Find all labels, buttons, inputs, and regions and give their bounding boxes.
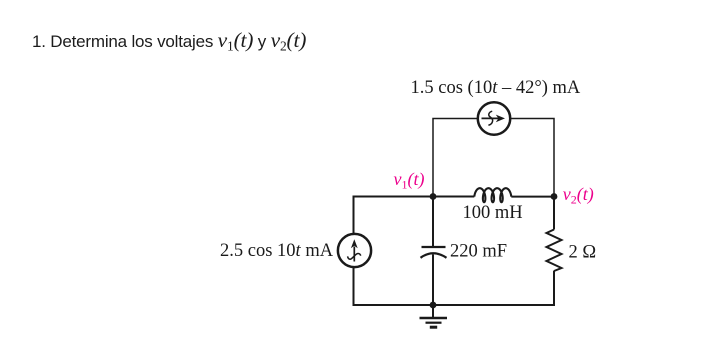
svg-text:100 mH: 100 mH — [463, 203, 523, 223]
svg-text:2 Ω: 2 Ω — [569, 243, 597, 263]
svg-text:1.5 cos (10t – 42°) mA: 1.5 cos (10t – 42°) mA — [411, 78, 581, 98]
svg-text:v1(t): v1(t) — [394, 169, 425, 192]
svg-text:v2(t): v2(t) — [563, 184, 594, 207]
svg-text:220 mF: 220 mF — [450, 242, 507, 262]
svg-text:2.5 cos 10t mA: 2.5 cos 10t mA — [220, 241, 334, 261]
